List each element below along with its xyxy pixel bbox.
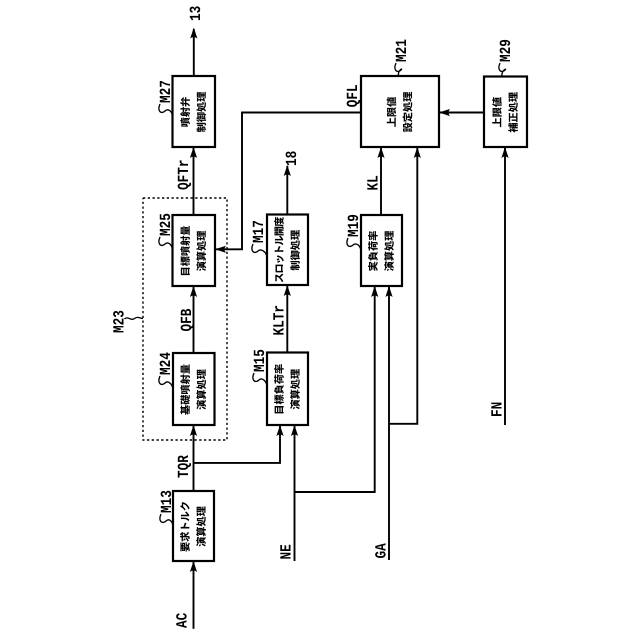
- label ref M13: [161, 491, 172, 513]
- arrowhead into M15 left: [276, 425, 283, 436]
- wire M24 to M25 (QFB): [193, 286, 195, 353]
- label-leader M25 tilde: [159, 237, 173, 250]
- label-leader M29 tilde: [499, 63, 506, 77]
- label signal 13: [190, 6, 201, 20]
- wire M15 to M17 (KLTr): [286, 285, 288, 353]
- label signal FN: [491, 403, 501, 416]
- label-leader M13 tilde: [160, 514, 173, 526]
- label ref M29: [500, 40, 511, 62]
- arrowhead into M27: [190, 147, 197, 158]
- label signal TQR: [178, 455, 191, 477]
- wire TQR branch to M15: [194, 425, 281, 463]
- box M21 upper-limit setting: [361, 76, 439, 147]
- label-leader M15 tilde: [253, 373, 267, 386]
- label signal NE: [280, 545, 290, 559]
- arrowhead into M21 right edge: [439, 109, 450, 116]
- wire NE branch to M19: [295, 286, 375, 492]
- box M13 required torque calc: [173, 491, 214, 561]
- wire NE input: [294, 425, 296, 561]
- arrowhead into M13: [190, 561, 197, 572]
- wire M17 output to 18: [286, 166, 288, 215]
- label ref M27: [160, 81, 170, 102]
- arrowhead into M29: [501, 147, 508, 158]
- wire GA input: [388, 286, 390, 560]
- label-leader M19 tilde: [347, 238, 361, 251]
- label signal QFB: [181, 309, 194, 331]
- label ref M23: [113, 311, 124, 333]
- box M17 throttle opening control: [267, 215, 308, 286]
- label signal QFL: [347, 85, 360, 107]
- box M19 actual load factor calc: [361, 215, 402, 286]
- arrowhead into M25 right edge: [215, 246, 226, 253]
- arrowhead output 18: [284, 165, 291, 176]
- arrowhead into M15 right: [291, 425, 298, 436]
- label ref M15: [254, 350, 264, 372]
- wire dashed group box M23: [143, 198, 227, 440]
- arrowhead into M21 left: [377, 147, 384, 158]
- wire AC input: [193, 561, 195, 629]
- label-leader M23 tilde: [125, 317, 144, 319]
- arrowhead into M21 right: [414, 147, 421, 158]
- box M24 base injection amount calc: [173, 353, 215, 425]
- box M25 target injection amount calc: [173, 215, 216, 286]
- wire FN input: [504, 147, 506, 425]
- wire M13 to M24 (TQR): [193, 425, 195, 491]
- arrowhead into M19 left: [371, 286, 378, 297]
- label ref M25: [160, 214, 171, 236]
- label ref M17: [253, 221, 263, 242]
- wire M27 output to 13: [193, 29, 195, 76]
- label-leader M27 tilde: [159, 104, 173, 116]
- label ref M24: [160, 352, 170, 374]
- arrowhead into M24: [190, 425, 197, 436]
- box M29 upper-limit correction: [484, 77, 527, 148]
- label ref M21: [396, 40, 406, 62]
- label-leader M17 tilde: [252, 244, 267, 257]
- arrowhead into M19 right: [385, 286, 392, 297]
- arrowhead into M17: [284, 285, 291, 296]
- label signal 18: [286, 151, 297, 165]
- wire M29 to M21: [439, 112, 484, 114]
- label signal KL: [367, 176, 377, 190]
- label signal GA: [375, 543, 386, 558]
- label-leader M24 tilde: [159, 376, 173, 389]
- arrowhead into M25: [190, 286, 197, 297]
- arrowhead output 13: [190, 28, 197, 39]
- wire M19 to M21 (KL): [380, 147, 382, 215]
- label signal KLTr: [273, 306, 283, 335]
- label-leader M21 tilde: [395, 63, 402, 76]
- box M15 target load factor calc: [267, 353, 308, 426]
- wire QFL feedback M21 to M25: [215, 113, 361, 250]
- wire GA branch to M21: [389, 147, 417, 424]
- label signal QFTr: [178, 160, 191, 189]
- label signal AC: [176, 613, 187, 628]
- wire M25 to M27 (QFTr): [193, 147, 195, 215]
- label ref M19: [348, 215, 359, 237]
- box M27 injection-valve control: [173, 76, 216, 147]
